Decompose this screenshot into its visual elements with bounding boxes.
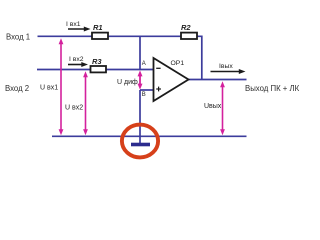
wire: output line (189, 79, 247, 81)
voltage arrow U vyx (double headed magenta) (222, 85, 224, 132)
voltage arrow U dif (double headed magenta between A and B) (139, 74, 141, 86)
svg-text:Вход 1: Вход 1 (6, 32, 30, 41)
svg-text:Выход ПК + ЛК: Выход ПК + ЛК (245, 84, 300, 93)
wire: segment R1 to R2 through node junction (108, 35, 181, 37)
svg-text:OP1: OP1 (171, 60, 185, 67)
svg-text:R1: R1 (93, 23, 103, 32)
resistor R2 (181, 33, 197, 39)
resistor R3 (91, 66, 107, 72)
svg-text:U вх2: U вх2 (65, 105, 83, 112)
ground highlight ellipse (122, 125, 158, 158)
svg-text:U диф: U диф (117, 79, 138, 86)
svg-text:I вх2: I вх2 (69, 56, 84, 63)
svg-text:Uвых: Uвых (204, 103, 222, 110)
svg-text:R2: R2 (181, 23, 191, 32)
svg-text:I вх1: I вх1 (66, 21, 81, 28)
current arrow I vx2 (68, 64, 82, 66)
wire: bottom common rail (52, 135, 247, 137)
voltage arrow U vx1 (double headed magenta) (60, 42, 62, 132)
op-amp minus input sign (156, 67, 160, 69)
wire: R2 right lead and feedback drop to output (197, 36, 202, 79)
voltage arrow U vx2 (double headed magenta) (85, 75, 87, 132)
ground bar (131, 143, 150, 147)
svg-text:Вход 2: Вход 2 (5, 84, 29, 93)
current arrow I vyx (output) (211, 71, 240, 73)
svg-text:U вх1: U вх1 (40, 85, 58, 92)
wire: input 2 horizontal line (left segment to R3) (37, 69, 91, 71)
current arrow I vx1 (68, 28, 85, 30)
svg-text:Iвых: Iвых (219, 63, 233, 70)
wire: input 1 horizontal line (left segment to R1) (38, 35, 93, 37)
resistor R1 (92, 33, 108, 39)
wire: node B down to ground (139, 90, 141, 143)
op-amp plus input sign (156, 88, 161, 90)
op-amp OP1 (154, 58, 189, 101)
svg-text:R3: R3 (92, 57, 102, 66)
wire: op-amp non-inverting input (node B) (140, 89, 154, 91)
wire: vertical feedback node line down to node A (139, 36, 141, 70)
svg-text:B: B (142, 92, 146, 98)
wire: R3 to op-amp inverting input (node A) (106, 69, 154, 71)
svg-text:A: A (142, 61, 146, 67)
